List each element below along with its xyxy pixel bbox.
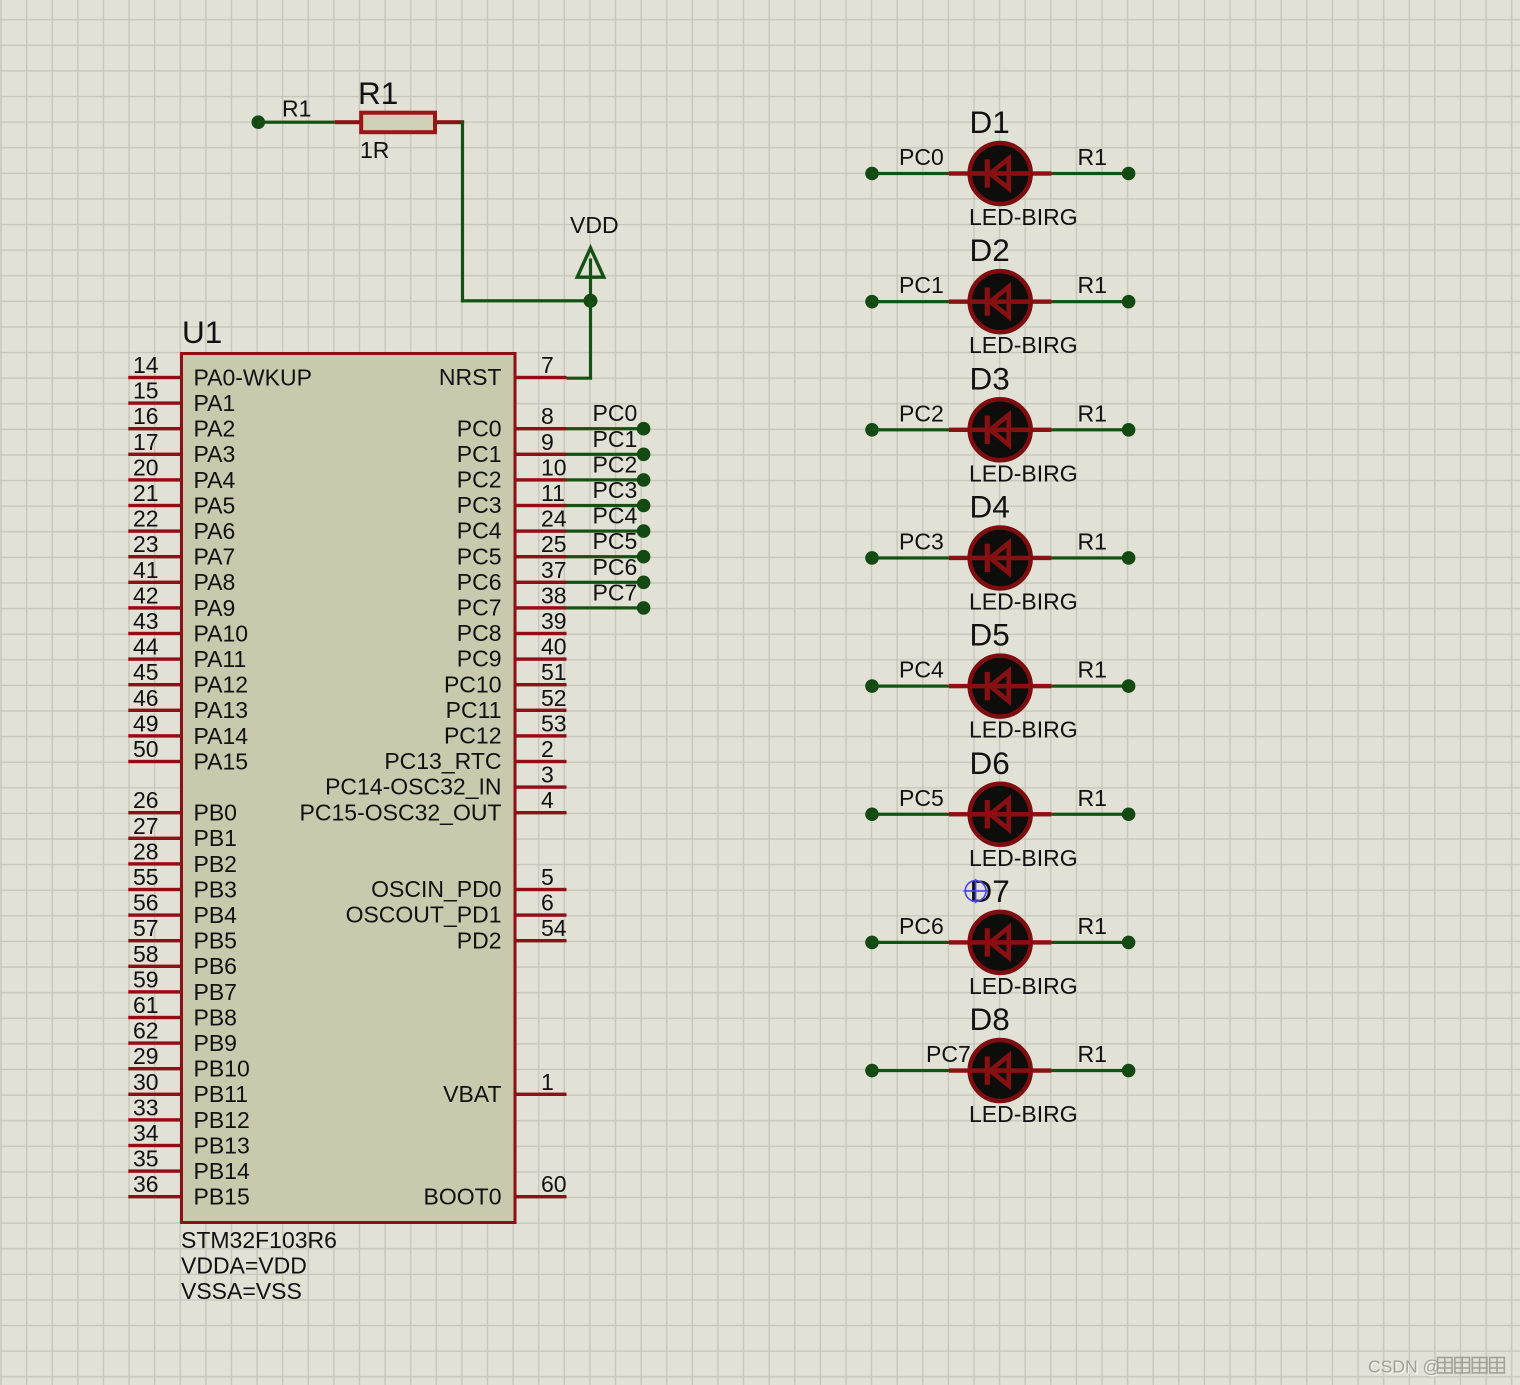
- svg-text:PA13: PA13: [194, 697, 249, 723]
- wire PC6 from U1 to node: [567, 576, 651, 590]
- svg-text:27: 27: [133, 813, 159, 839]
- svg-text:PA7: PA7: [194, 544, 236, 570]
- U1 pin 2 (PC13_RTC): [384, 736, 566, 774]
- svg-text:1R: 1R: [360, 137, 389, 163]
- svg-text:PA15: PA15: [194, 748, 249, 774]
- svg-text:PB0: PB0: [194, 800, 237, 826]
- U1 pin 61 (PB8): [128, 992, 237, 1030]
- svg-text:PC8: PC8: [457, 620, 502, 646]
- svg-text:PC14-OSC32_IN: PC14-OSC32_IN: [325, 774, 501, 800]
- svg-text:PC11: PC11: [446, 697, 502, 723]
- svg-text:PA14: PA14: [194, 723, 249, 749]
- svg-text:VDD: VDD: [570, 212, 619, 238]
- svg-text:30: 30: [133, 1069, 159, 1095]
- wire D1 cathode to R1 net: [1051, 167, 1135, 181]
- wire PC5 to D6 anode: [865, 807, 949, 821]
- svg-text:PB11: PB11: [194, 1081, 249, 1107]
- wire PC4 to D5 anode: [865, 679, 949, 693]
- svg-text:PC0: PC0: [457, 415, 502, 441]
- svg-text:1: 1: [541, 1069, 554, 1095]
- svg-text:36: 36: [133, 1171, 159, 1197]
- U1 pin 41 (PA8): [128, 557, 235, 595]
- svg-text:D3: D3: [970, 360, 1010, 396]
- U1 pin 7 (NRST): [439, 352, 567, 390]
- svg-text:PA12: PA12: [194, 672, 249, 698]
- svg-text:PC7: PC7: [926, 1041, 971, 1067]
- svg-text:R1: R1: [1078, 144, 1107, 170]
- svg-text:6: 6: [541, 890, 554, 916]
- svg-text:R1: R1: [1078, 528, 1107, 554]
- svg-text:49: 49: [133, 710, 159, 736]
- svg-text:PB5: PB5: [194, 928, 237, 954]
- wire PC7 from U1 to node: [567, 601, 651, 615]
- svg-text:PB15: PB15: [194, 1184, 250, 1210]
- svg-text:PB1: PB1: [194, 825, 237, 851]
- svg-text:52: 52: [541, 685, 567, 711]
- svg-text:15: 15: [133, 378, 159, 404]
- svg-text:BOOT0: BOOT0: [424, 1183, 502, 1209]
- U1 pin 36 (PB15): [128, 1171, 249, 1209]
- label STM32F103R6 / VDDA / VSSA: [181, 1227, 337, 1304]
- svg-text:PA1: PA1: [194, 390, 236, 416]
- svg-text:61: 61: [133, 992, 159, 1018]
- svg-text:PC0: PC0: [593, 400, 638, 426]
- U1 pin 30 (PB11): [128, 1069, 248, 1107]
- U1 pin 62 (PB9): [128, 1018, 237, 1056]
- svg-text:D5: D5: [970, 617, 1010, 653]
- svg-text:PC5: PC5: [457, 543, 502, 569]
- wire D4 cathode to R1 net: [1051, 551, 1135, 565]
- svg-text:PB3: PB3: [194, 876, 237, 902]
- U1 pin 35 (PB14): [128, 1146, 250, 1184]
- svg-text:PC6: PC6: [593, 554, 638, 580]
- U1 pin 16 (PA2): [128, 403, 235, 441]
- U1 pin 39 (PC8): [457, 608, 567, 646]
- svg-text:56: 56: [133, 890, 159, 916]
- svg-text:PC1: PC1: [457, 441, 502, 467]
- svg-text:PB12: PB12: [194, 1107, 250, 1133]
- svg-text:44: 44: [133, 634, 159, 660]
- U1 pin 9 (PC1): [457, 429, 567, 467]
- svg-text:PB13: PB13: [194, 1132, 250, 1158]
- U1 pin 6 (OSCOUT_PD1): [346, 890, 567, 928]
- svg-text:21: 21: [133, 480, 159, 506]
- svg-text:40: 40: [541, 634, 567, 660]
- wire PC3 to D4 anode: [865, 551, 949, 565]
- LED D3 (LED-BIRG): [949, 399, 1051, 460]
- svg-text:11: 11: [541, 480, 565, 506]
- U1 pin 3 (PC14-OSC32_IN): [325, 762, 566, 800]
- svg-text:24: 24: [541, 506, 567, 532]
- svg-text:16: 16: [133, 403, 159, 429]
- svg-text:OSCOUT_PD1: OSCOUT_PD1: [346, 902, 502, 928]
- svg-text:R1: R1: [1078, 657, 1107, 683]
- IC U1 (STM32F103R6 microcontroller): [182, 354, 516, 1223]
- svg-text:PA2: PA2: [194, 416, 236, 442]
- svg-text:PA6: PA6: [194, 518, 236, 544]
- svg-text:PC4: PC4: [899, 657, 944, 683]
- U1 pin 27 (PB1): [128, 813, 237, 851]
- LED D2 (LED-BIRG): [949, 271, 1051, 332]
- svg-text:PC2: PC2: [593, 451, 638, 477]
- U1 pin 5 (OSCIN_PD0): [371, 864, 566, 902]
- svg-text:PB8: PB8: [194, 1004, 237, 1030]
- svg-text:PB7: PB7: [194, 979, 237, 1005]
- svg-text:D4: D4: [970, 488, 1010, 524]
- svg-text:17: 17: [133, 429, 159, 455]
- U1 pin 58 (PB6): [128, 941, 237, 979]
- wire VDD rail horizontal: [461, 299, 592, 302]
- svg-text:PC7: PC7: [457, 595, 502, 621]
- svg-text:D8: D8: [970, 1001, 1010, 1037]
- svg-text:2: 2: [541, 736, 554, 762]
- U1 pin 33 (PB12): [128, 1094, 249, 1132]
- svg-text:D6: D6: [970, 745, 1010, 781]
- svg-text:PC6: PC6: [899, 913, 944, 939]
- wire D6 cathode to R1 net: [1051, 807, 1135, 821]
- U1 pin 38 (PC7): [457, 582, 567, 620]
- watermark CSDN: [1368, 1357, 1504, 1378]
- svg-text:PC3: PC3: [457, 492, 502, 518]
- svg-text:PC3: PC3: [899, 528, 944, 554]
- svg-text:29: 29: [133, 1043, 159, 1069]
- wire resistor to VDD rail (vertical): [461, 121, 464, 303]
- U1 pin 20 (PA4): [128, 454, 235, 492]
- svg-text:PA4: PA4: [194, 467, 236, 493]
- svg-text:34: 34: [133, 1120, 159, 1146]
- U1 pin 49 (PA14): [128, 710, 248, 748]
- wire PC4 from U1 to node: [567, 524, 651, 538]
- power symbol VDD: [577, 248, 604, 303]
- U1 pin 24 (PC4): [457, 506, 567, 544]
- U1 pin 34 (PB13): [128, 1120, 249, 1158]
- svg-text:R1: R1: [282, 96, 311, 122]
- wire PC2 from U1 to node: [567, 473, 651, 487]
- wire D2 cathode to R1 net: [1051, 295, 1135, 309]
- wire PC2 to D3 anode: [865, 423, 949, 437]
- svg-text:35: 35: [133, 1146, 159, 1172]
- svg-text:PC0: PC0: [899, 144, 944, 170]
- svg-text:PD2: PD2: [457, 927, 502, 953]
- wire PC6 to D7 anode: [865, 936, 949, 950]
- svg-text:PC9: PC9: [457, 646, 502, 672]
- wire PC0 to D1 anode: [865, 167, 949, 181]
- svg-text:PA3: PA3: [194, 441, 236, 467]
- svg-text:LED-BIRG: LED-BIRG: [969, 332, 1078, 358]
- U1 pin 37 (PC6): [457, 557, 567, 595]
- U1 pin 22 (PA6): [128, 506, 235, 544]
- junction VDD node: [584, 294, 598, 308]
- LED D5 (LED-BIRG): [949, 656, 1051, 717]
- wire PC7 to D8 anode: [865, 1064, 949, 1078]
- wire D8 cathode to R1 net: [1051, 1064, 1135, 1078]
- svg-text:25: 25: [541, 531, 567, 557]
- svg-text:3: 3: [541, 762, 554, 788]
- U1 pin 15 (PA1): [128, 378, 235, 416]
- svg-text:45: 45: [133, 659, 159, 685]
- resistor R1: [335, 113, 464, 133]
- U1 pin 45 (PA12): [128, 659, 248, 697]
- svg-text:55: 55: [133, 864, 159, 890]
- node origin marker (blue crosshair): [963, 879, 987, 903]
- U1 pin 55 (PB3): [128, 864, 237, 902]
- svg-text:8: 8: [541, 403, 554, 429]
- svg-text:43: 43: [133, 608, 159, 634]
- svg-text:51: 51: [541, 659, 567, 685]
- svg-text:LED-BIRG: LED-BIRG: [969, 717, 1078, 743]
- svg-text:PA10: PA10: [194, 620, 249, 646]
- svg-text:PC2: PC2: [899, 400, 944, 426]
- U1 pin 57 (PB5): [128, 915, 237, 953]
- U1 pin 59 (PB7): [128, 966, 237, 1004]
- svg-text:7: 7: [541, 352, 554, 378]
- wire D3 cathode to R1 net: [1051, 423, 1135, 437]
- svg-text:R1: R1: [1078, 272, 1107, 298]
- U1 pin 4 (PC15-OSC32_OUT): [300, 787, 567, 825]
- svg-text:LED-BIRG: LED-BIRG: [969, 845, 1078, 871]
- svg-text:5: 5: [541, 864, 554, 890]
- wire PC3 from U1 to node: [567, 499, 651, 513]
- svg-text:37: 37: [541, 557, 567, 583]
- svg-text:26: 26: [133, 787, 159, 813]
- LED D8 (LED-BIRG): [949, 1040, 1051, 1101]
- U1 pin 40 (PC9): [457, 634, 567, 672]
- svg-text:PA0-WKUP: PA0-WKUP: [194, 364, 312, 390]
- LED D4 (LED-BIRG): [949, 527, 1051, 588]
- svg-text:NRST: NRST: [439, 364, 502, 390]
- U1 pin 23 (PA7): [128, 531, 235, 569]
- svg-text:R1: R1: [1078, 400, 1107, 426]
- U1 pin 25 (PC5): [457, 531, 567, 569]
- svg-text:59: 59: [133, 966, 159, 992]
- svg-text:PC4: PC4: [593, 503, 638, 529]
- svg-text:PC13_RTC: PC13_RTC: [384, 748, 501, 774]
- U1 pin 44 (PA11): [128, 634, 246, 672]
- wire PC0 from U1 to node: [567, 422, 651, 436]
- U1 pin 11 (PC3): [457, 480, 567, 518]
- U1 pin 28 (PB2): [128, 838, 237, 876]
- wire D7 cathode to R1 net: [1051, 936, 1135, 950]
- svg-text:LED-BIRG: LED-BIRG: [969, 588, 1078, 614]
- U1 pin 21 (PA5): [128, 480, 235, 518]
- U1 pin 1 (VBAT): [443, 1069, 566, 1107]
- svg-text:PC5: PC5: [899, 785, 944, 811]
- wire VDD to NRST: [567, 301, 591, 378]
- U1 pin 43 (PA10): [128, 608, 248, 646]
- svg-text:PB9: PB9: [194, 1030, 237, 1056]
- svg-text:D2: D2: [970, 232, 1010, 268]
- U1 pin 60 (BOOT0): [424, 1171, 567, 1209]
- svg-text:PC4: PC4: [457, 518, 502, 544]
- svg-text:14: 14: [133, 352, 159, 378]
- svg-text:U1: U1: [182, 314, 222, 350]
- U1 pin 8 (PC0): [457, 403, 567, 441]
- svg-text:62: 62: [133, 1018, 159, 1044]
- svg-text:39: 39: [541, 608, 567, 634]
- node R1 net terminal dot: [251, 115, 265, 129]
- LED D7 (LED-BIRG): [949, 912, 1051, 973]
- U1 pin 17 (PA3): [128, 429, 235, 467]
- U1 pin 29 (PB10): [128, 1043, 249, 1081]
- U1 pin 52 (PC11): [446, 685, 567, 723]
- svg-text:50: 50: [133, 736, 159, 762]
- U1 pin 56 (PB4): [128, 890, 237, 928]
- LED D1 (LED-BIRG): [949, 143, 1051, 204]
- wire R1 net to resistor left lead: [258, 121, 334, 124]
- svg-text:46: 46: [133, 685, 159, 711]
- svg-text:LED-BIRG: LED-BIRG: [969, 460, 1078, 486]
- svg-text:57: 57: [133, 915, 159, 941]
- svg-text:PB10: PB10: [194, 1056, 250, 1082]
- svg-text:4: 4: [541, 787, 554, 813]
- wire PC1 to D2 anode: [865, 295, 949, 309]
- U1 pin 53 (PC12): [444, 710, 567, 748]
- svg-text:33: 33: [133, 1094, 159, 1120]
- wire PC1 from U1 to node: [567, 448, 651, 462]
- svg-text:28: 28: [133, 838, 159, 864]
- svg-text:PC7: PC7: [593, 579, 638, 605]
- svg-text:R1: R1: [358, 75, 398, 111]
- svg-text:9: 9: [541, 429, 554, 455]
- svg-text:PB2: PB2: [194, 851, 237, 877]
- svg-text:22: 22: [133, 506, 159, 532]
- svg-text:PC3: PC3: [593, 477, 638, 503]
- svg-text:58: 58: [133, 941, 159, 967]
- svg-text:23: 23: [133, 531, 159, 557]
- U1 pin 54 (PD2): [457, 915, 567, 953]
- LED D6 (LED-BIRG): [949, 784, 1051, 845]
- svg-text:20: 20: [133, 454, 159, 480]
- U1 pin 46 (PA13): [128, 685, 248, 723]
- svg-text:PC12: PC12: [444, 723, 502, 749]
- svg-text:VDDA=VDD: VDDA=VDD: [181, 1253, 307, 1279]
- svg-text:PC2: PC2: [457, 467, 502, 493]
- svg-text:LED-BIRG: LED-BIRG: [969, 973, 1078, 999]
- svg-text:PB14: PB14: [194, 1158, 250, 1184]
- svg-text:VBAT: VBAT: [443, 1081, 501, 1107]
- svg-text:PA11: PA11: [194, 646, 247, 672]
- svg-text:CSDN @: CSDN @: [1368, 1357, 1440, 1377]
- svg-text:10: 10: [541, 454, 567, 480]
- U1 pin 51 (PC10): [444, 659, 567, 697]
- svg-text:R1: R1: [1078, 1041, 1107, 1067]
- U1 pin 42 (PA9): [128, 582, 235, 620]
- svg-text:LED-BIRG: LED-BIRG: [969, 1101, 1078, 1127]
- wire D5 cathode to R1 net: [1051, 679, 1135, 693]
- svg-text:PC1: PC1: [593, 426, 638, 452]
- svg-text:PB4: PB4: [194, 902, 238, 928]
- svg-text:PC5: PC5: [593, 528, 638, 554]
- svg-text:60: 60: [541, 1171, 567, 1197]
- U1 pin 50 (PA15): [128, 736, 248, 774]
- svg-text:42: 42: [133, 582, 159, 608]
- svg-text:D1: D1: [970, 104, 1010, 140]
- svg-text:R1: R1: [1078, 913, 1107, 939]
- U1 pin 10 (PC2): [457, 454, 567, 492]
- svg-text:PB6: PB6: [194, 953, 237, 979]
- svg-text:54: 54: [541, 915, 567, 941]
- svg-text:PA9: PA9: [194, 595, 236, 621]
- U1 pin 26 (PB0): [128, 787, 237, 825]
- svg-text:38: 38: [541, 582, 567, 608]
- svg-text:LED-BIRG: LED-BIRG: [969, 204, 1078, 230]
- svg-text:R1: R1: [1078, 785, 1107, 811]
- svg-text:53: 53: [541, 710, 567, 736]
- svg-text:PC1: PC1: [899, 272, 944, 298]
- svg-text:PC15-OSC32_OUT: PC15-OSC32_OUT: [300, 799, 502, 825]
- svg-text:PC10: PC10: [444, 671, 502, 697]
- U1 pin 14 (PA0-WKUP): [128, 352, 312, 390]
- svg-text:PA5: PA5: [194, 492, 236, 518]
- svg-text:OSCIN_PD0: OSCIN_PD0: [371, 876, 501, 902]
- svg-text:STM32F103R6: STM32F103R6: [181, 1227, 337, 1253]
- svg-text:VSSA=VSS: VSSA=VSS: [181, 1278, 302, 1304]
- svg-text:41: 41: [133, 557, 159, 583]
- svg-text:PA8: PA8: [194, 569, 236, 595]
- wire PC5 from U1 to node: [567, 550, 651, 564]
- svg-text:PC6: PC6: [457, 569, 502, 595]
